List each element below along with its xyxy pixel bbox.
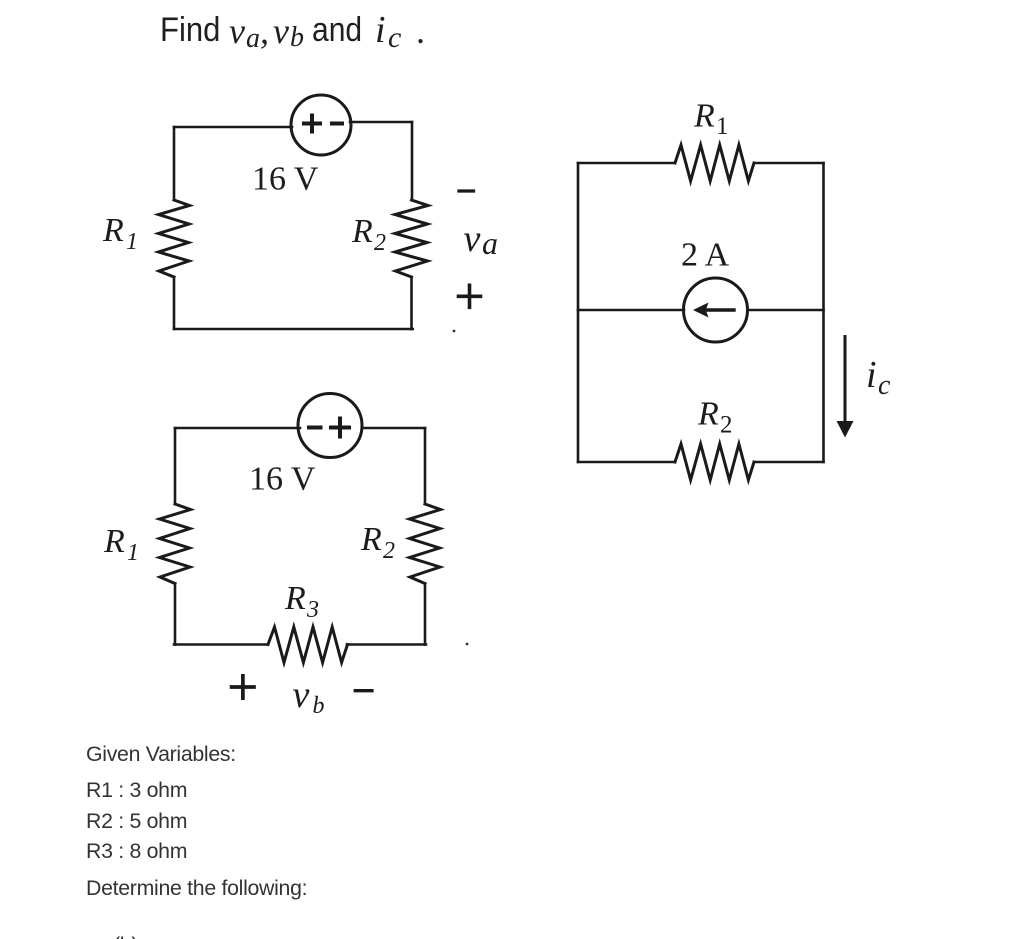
- variable R2 value: [86, 809, 187, 833]
- svg-text:R: R: [351, 213, 373, 250]
- svg-text:R: R: [360, 521, 382, 558]
- wire: B top-right horizontal: [362, 427, 425, 430]
- svg-text:3: 3: [306, 597, 319, 623]
- resistor R2 (circuit A): [395, 200, 428, 277]
- svg-text:b: b: [313, 693, 325, 719]
- wire: C left vertical: [577, 163, 580, 462]
- title: Find va, vb and ic .: [0, 0, 1, 1]
- wire: C top-left horizontal: [578, 162, 675, 165]
- svg-text:R: R: [103, 523, 125, 560]
- svg-text:16 V: 16 V: [252, 161, 319, 198]
- resistor R1 (circuit B): [160, 504, 191, 584]
- svg-text:2: 2: [383, 538, 395, 564]
- resistor R1 (circuit C): [675, 145, 754, 181]
- polarity + mark inside source A: [304, 116, 320, 132]
- svg-text:R: R: [697, 396, 719, 433]
- svg-text:i: i: [866, 354, 877, 396]
- current source 2A (circuit C) circle: [684, 278, 748, 342]
- wire: A right vertical upper: [411, 122, 414, 200]
- current ic arrow shaft: [844, 337, 847, 423]
- wire: B top-left horizontal: [175, 427, 300, 430]
- wire: B left vertical lower: [174, 584, 177, 645]
- plus mark left of vb: [232, 676, 254, 698]
- svg-text:2 A: 2 A: [681, 237, 730, 274]
- voltage source 16V (circuit B) circle: [298, 394, 362, 458]
- svg-text:R: R: [693, 98, 715, 135]
- determine the following heading: [86, 876, 307, 900]
- voltage source 16V (circuit A) circle: [291, 95, 351, 155]
- wire: C middle-right horizontal: [748, 309, 824, 312]
- wire: A right vertical lower: [410, 277, 413, 329]
- resistor R2 (circuit C): [675, 444, 754, 480]
- minus mark above va: [459, 189, 474, 192]
- svg-text:R: R: [102, 212, 124, 249]
- svg-text:2: 2: [374, 230, 386, 256]
- current source arrow head (points left): [693, 303, 709, 318]
- svg-text:a: a: [482, 225, 498, 261]
- variable R3 value: [86, 839, 187, 863]
- wire: A top-right horizontal: [350, 121, 412, 124]
- clipped text at bottom edge: [113, 933, 138, 939]
- polarity - mark inside source B: [309, 426, 321, 430]
- wire: C top-right horizontal: [754, 162, 824, 165]
- wire: B right vertical lower: [424, 584, 427, 645]
- wire: B left vertical upper: [174, 428, 177, 504]
- svg-text:2: 2: [720, 412, 733, 439]
- minus mark right of vb: [355, 689, 372, 692]
- svg-text:v: v: [464, 218, 481, 260]
- wire: A left vertical lower: [173, 277, 176, 329]
- resistor R3 (circuit B): [268, 627, 348, 663]
- svg-text:1: 1: [127, 540, 139, 566]
- svg-text:R: R: [284, 580, 306, 617]
- wire: A bottom horizontal: [174, 328, 413, 331]
- wire: B bottom-right horizontal: [347, 643, 426, 646]
- resistor R1 (circuit A): [159, 200, 190, 277]
- given variables heading: [86, 742, 236, 766]
- polarity - mark inside source A: [332, 122, 342, 126]
- wire: B right vertical upper: [424, 428, 427, 504]
- wire: C right vertical: [822, 163, 825, 462]
- wire: B bottom-left horizontal: [174, 643, 268, 646]
- stray dot right of circuit B bottom: [466, 643, 469, 646]
- wire: C middle-left horizontal: [578, 309, 684, 312]
- svg-text:16 V: 16 V: [249, 461, 316, 498]
- svg-text:c: c: [878, 370, 891, 401]
- wire: C bottom horizontal left: [578, 461, 675, 464]
- wire: C bottom horizontal right: [754, 461, 824, 464]
- polarity + mark inside source B: [331, 419, 349, 437]
- resistor R2 (circuit B): [410, 504, 441, 584]
- current ic arrow head (points down): [837, 421, 854, 438]
- svg-text:1: 1: [126, 229, 138, 255]
- stray dot right of circuit A bottom: [453, 330, 456, 333]
- variable R1 value: [86, 778, 187, 802]
- plus mark below va: [459, 285, 481, 307]
- wire: A top-left horizontal: [174, 126, 292, 129]
- svg-text:1: 1: [716, 113, 729, 140]
- wire: A left vertical upper: [173, 127, 176, 200]
- svg-text:v: v: [293, 674, 310, 716]
- current source arrow shaft: [703, 308, 734, 311]
